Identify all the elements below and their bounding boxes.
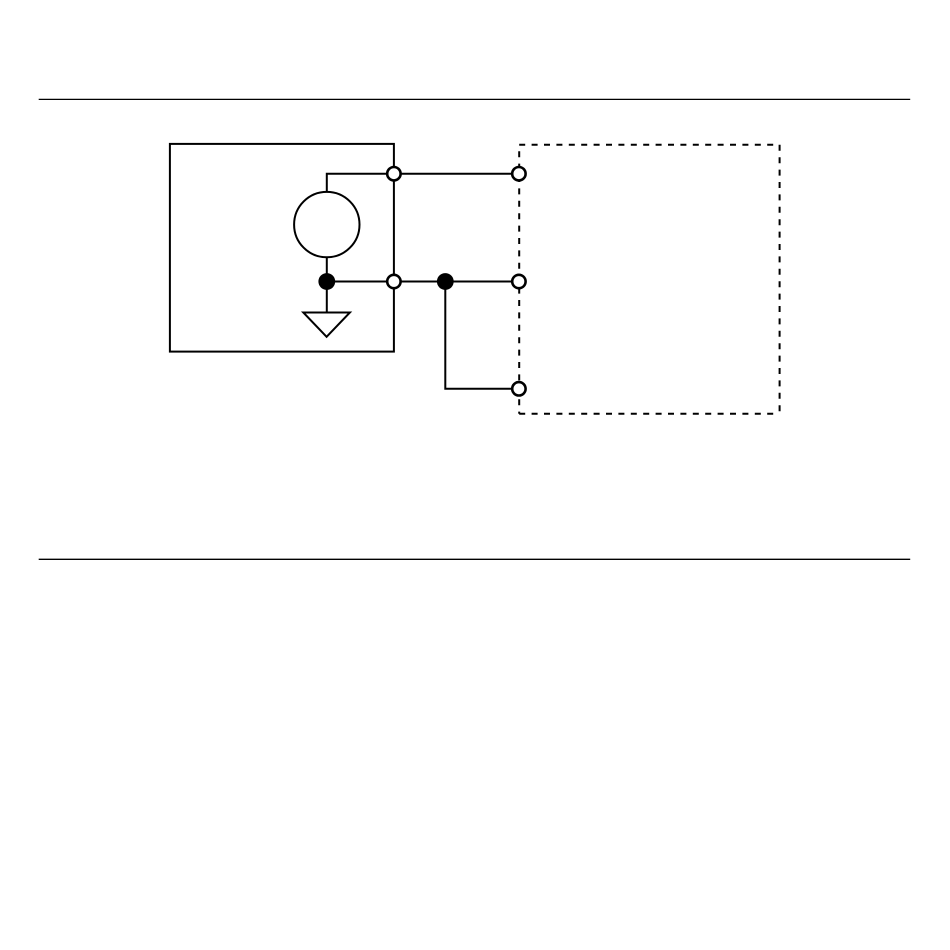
terminal: box right top [387,167,400,180]
wire: source bottom lead [326,258,328,282]
wire: top row from source top lead [327,174,519,192]
terminal: dashed box middle [512,275,525,288]
source circle [294,192,359,257]
footer rule [39,558,911,560]
terminal: box right middle [387,275,400,288]
wire: ground stem [326,282,328,313]
ground [303,313,350,337]
wire: middle-to-bottom jog [445,282,519,389]
source box (solid rectangle) [170,144,394,352]
terminal: dashed box bottom [512,382,525,395]
junction dot A [318,273,335,290]
junction dot B [437,273,454,290]
wire: middle row [327,281,519,283]
header rule [39,98,911,100]
load box (dashed rectangle) [519,145,779,414]
terminal: dashed box top [512,167,525,180]
